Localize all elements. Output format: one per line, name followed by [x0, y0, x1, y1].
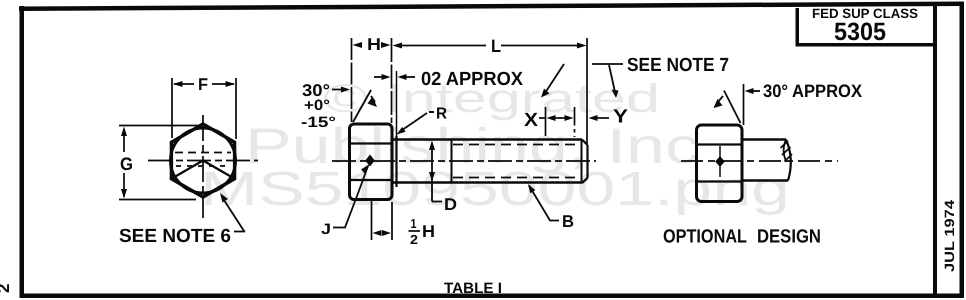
right margin column line: [933, 4, 937, 295]
30 deg extension line: [743, 84, 745, 125]
optional head center dot: [715, 156, 725, 167]
D arrow down: [429, 172, 435, 182]
hidden thread chord upper: [175, 152, 231, 154]
X arrows: [547, 115, 556, 121]
02 washer extension line: [396, 71, 398, 136]
SEE NOTE 7 leader to Y: [609, 65, 615, 92]
head chamfer angle line: [353, 90, 371, 122]
border frame top: [19, 2, 963, 12]
G arrow down: [121, 189, 127, 199]
H dimension arrows: [353, 42, 363, 48]
stub bottom line: [742, 179, 788, 182]
svg-text:MS510950001.png: MS510950001.png: [200, 163, 790, 216]
svg-text:JUL 1974: JUL 1974: [942, 199, 957, 272]
svg-text:DESIGN: DESIGN: [757, 227, 821, 248]
svg-text:2: 2: [410, 232, 418, 247]
optional head outline: [697, 125, 743, 202]
optional centerline: [681, 160, 838, 162]
shank top line: [392, 138, 582, 141]
svg-text:OPTIONAL: OPTIONAL: [663, 227, 747, 248]
SEE NOTE 7 leader to X: [592, 63, 623, 65]
head facet line lower: [350, 179, 392, 181]
bolt head outline: [350, 124, 393, 200]
J leader arrowhead: [361, 164, 370, 175]
border frame right: [960, 2, 965, 298]
svg-text:5305: 5305: [834, 18, 886, 46]
spoke to lower-left vertex: [171, 161, 203, 179]
optional head vertical centerline: [719, 146, 721, 177]
svg-text:B: B: [562, 212, 574, 231]
svg-text:-15°: -15°: [301, 114, 336, 131]
svg-text:+0°: +0°: [304, 97, 330, 114]
R leader: [400, 113, 427, 132]
border frame left: [20, 6, 25, 297]
X extension line: [545, 107, 547, 136]
half H extension line left: [371, 198, 373, 240]
svg-text:02 APPROX: 02 APPROX: [421, 69, 523, 90]
chamfer circle: [171, 128, 236, 193]
end chamfer bottom: [582, 178, 588, 183]
R label dash: [429, 111, 434, 113]
F arrow left: [173, 81, 183, 87]
thread runout extension line: [574, 107, 576, 122]
half H extension line right: [391, 202, 393, 240]
break hatching: [781, 141, 789, 148]
hidden thread chord lower: [176, 165, 230, 167]
svg-text:F: F: [198, 75, 208, 94]
svg-text:30° APPROX: 30° APPROX: [763, 81, 862, 101]
hex head outline: [171, 124, 234, 197]
hex vertical centerline: [202, 115, 204, 218]
L right extension line: [586, 38, 588, 145]
B leader: [529, 186, 559, 221]
svg-text:2: 2: [0, 284, 13, 293]
thread minor dia dashed upper: [453, 144, 575, 146]
B leader arrowhead: [528, 184, 535, 193]
X dim line from label: [539, 117, 546, 119]
svg-text:TABLE I: TABLE I: [444, 280, 502, 297]
spoke to lower-right vertex: [203, 161, 235, 179]
svg-text:H: H: [422, 222, 435, 241]
bolt centerline: [332, 160, 596, 162]
stub top line: [742, 138, 786, 141]
G arrow up: [121, 127, 127, 137]
svg-text:L: L: [491, 36, 501, 56]
shank bottom line: [392, 181, 582, 184]
F arrow right: [226, 81, 236, 87]
svg-text:J: J: [321, 221, 331, 238]
thread minor dia dashed lower: [453, 177, 575, 179]
J leader: [333, 166, 368, 228]
end face: [586, 145, 588, 178]
head center dot: [365, 155, 375, 167]
H extension line left: [351, 38, 353, 122]
svg-text:H: H: [367, 35, 381, 54]
F extension line left: [171, 78, 173, 138]
border frame bottom: [20, 294, 964, 299]
F dimension line: [174, 83, 194, 85]
H/L extension line shared: [391, 38, 393, 123]
30 deg approx arrow: [745, 88, 754, 94]
optional chamfer angle line: [724, 91, 741, 124]
G extension line top: [119, 125, 201, 127]
svg-text:R: R: [436, 106, 447, 123]
02 dim arrow left: [374, 76, 382, 78]
svg-text:Y: Y: [613, 107, 628, 128]
svg-text:X: X: [524, 110, 538, 131]
30 deg arrow: [332, 89, 343, 91]
end chamfer top: [582, 140, 588, 146]
D dimension line: [431, 143, 433, 202]
head facet line upper: [350, 142, 392, 144]
optional head facet upper: [697, 143, 742, 145]
svg-text:SEE NOTE 7: SEE NOTE 7: [627, 55, 729, 76]
L arrows: [393, 43, 403, 49]
optional head facet lower: [697, 180, 742, 182]
head chamfer angle arrowhead: [368, 97, 378, 108]
half H arrows: [373, 230, 382, 236]
G dimension line: [123, 129, 125, 152]
hex horizontal centerline: [148, 160, 258, 162]
G extension line bottom: [119, 199, 196, 201]
optional chamfer angle arrowhead: [714, 99, 723, 108]
svg-text:G: G: [120, 154, 133, 174]
F extension line right: [235, 78, 237, 139]
washer face line: [395, 136, 397, 187]
svg-text:D: D: [444, 195, 457, 214]
R leader arrowhead: [397, 127, 406, 135]
svg-text:1: 1: [411, 216, 417, 231]
02 dim arrow right: [406, 76, 415, 78]
L dimension line: [400, 45, 486, 47]
stub break curve: [786, 140, 791, 181]
thread start line: [451, 140, 453, 183]
SEE NOTE 6 leader arrowhead: [220, 193, 228, 203]
SEE NOTE 6 leader: [222, 197, 245, 232]
Y arrow: [589, 115, 598, 121]
FED SUP CLASS box: [796, 8, 800, 45]
thread end inner line: [581, 140, 583, 183]
svg-text:SEE NOTE 6: SEE NOTE 6: [119, 226, 231, 247]
D arrow up: [429, 141, 435, 151]
